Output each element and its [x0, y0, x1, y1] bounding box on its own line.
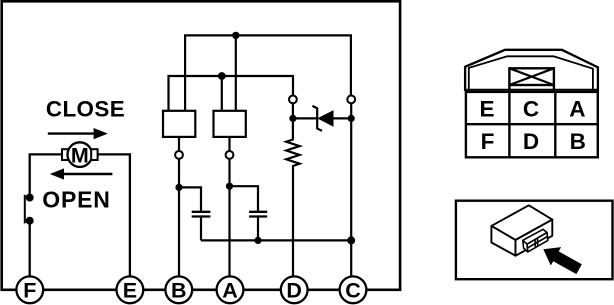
terminal E: [116, 276, 143, 303]
switch (jam protection): [26, 194, 34, 202]
node: capacitor 2 tap on A wire: [226, 183, 233, 190]
terminal F: [16, 276, 43, 303]
wire: motor left down to switch: [29, 153, 31, 195]
wire: capacitor ground bus: [201, 239, 351, 241]
svg-text:M: M: [71, 143, 89, 167]
svg-text:OPEN: OPEN: [42, 187, 110, 213]
unit connector socket: [523, 229, 548, 252]
svg-text:C: C: [523, 96, 539, 121]
svg-text:E: E: [479, 96, 494, 121]
wire: second bus: [169, 76, 294, 111]
wire: top bus: [185, 35, 351, 111]
capacitor 2: [230, 186, 259, 211]
wire: coil 1 to contact: [178, 137, 180, 151]
wire: motor right to terminal E: [129, 153, 131, 276]
relay coil 2: [214, 111, 246, 137]
node: cap2 on ground bus: [254, 237, 261, 244]
wire: contact 1 down to terminal B: [178, 159, 180, 276]
wire: vertical from top bus to coil 2 right pin: [235, 35, 237, 111]
wire: C branch vertical down to terminal C: [350, 103, 352, 276]
terminal B: [165, 276, 192, 303]
svg-text:A: A: [222, 279, 238, 303]
zener diode: [293, 117, 317, 119]
terminal A: [217, 276, 244, 303]
capacitor 1: [179, 187, 201, 210]
contact circle under coil 1: [175, 151, 183, 159]
wire: coil 2 to contact: [228, 137, 230, 151]
node: capacitor 1 tap on B wire: [175, 184, 182, 191]
relay unit 3D box: [491, 205, 552, 255]
node: zener cathode junction: [348, 115, 355, 122]
connector pin table: [466, 92, 598, 157]
svg-text:B: B: [171, 279, 187, 303]
node: zener anode junction: [289, 115, 296, 122]
relay coil 1: [163, 111, 195, 137]
wire: switch down to terminal F: [29, 221, 31, 276]
wire: vertical from second bus to coil 2 left pin: [221, 76, 223, 111]
connector housing outline: [465, 50, 598, 91]
node: top bus junction: [232, 32, 239, 39]
contact circle under coil 2: [226, 151, 234, 159]
enclosure box (actuator outline): [2, 1, 400, 290]
wire: contact to zener node: [292, 103, 294, 120]
wire: contact 2 down to terminal A: [228, 159, 230, 276]
connector latch: [509, 68, 554, 92]
node: ground bus to C wire: [347, 236, 355, 244]
svg-text:B: B: [570, 129, 586, 154]
svg-text:C: C: [345, 279, 361, 303]
svg-text:E: E: [123, 279, 137, 303]
svg-text:A: A: [569, 96, 585, 121]
svg-text:F: F: [23, 279, 36, 303]
arrow open (left): [62, 173, 112, 175]
terminal C: [340, 276, 367, 303]
location box: [456, 201, 613, 280]
resistor: [286, 122, 299, 276]
svg-text:CLOSE: CLOSE: [46, 97, 125, 122]
svg-text:F: F: [481, 129, 495, 154]
pointer arrow: [543, 247, 582, 274]
terminal D: [281, 276, 308, 303]
contact circle on D branch: [289, 96, 297, 104]
svg-text:D: D: [286, 279, 302, 303]
arrow close (right): [48, 132, 96, 134]
node: second bus junction: [218, 72, 226, 80]
svg-text:D: D: [523, 129, 539, 154]
motor M: [30, 142, 130, 167]
contact circle on C branch: [347, 96, 355, 104]
